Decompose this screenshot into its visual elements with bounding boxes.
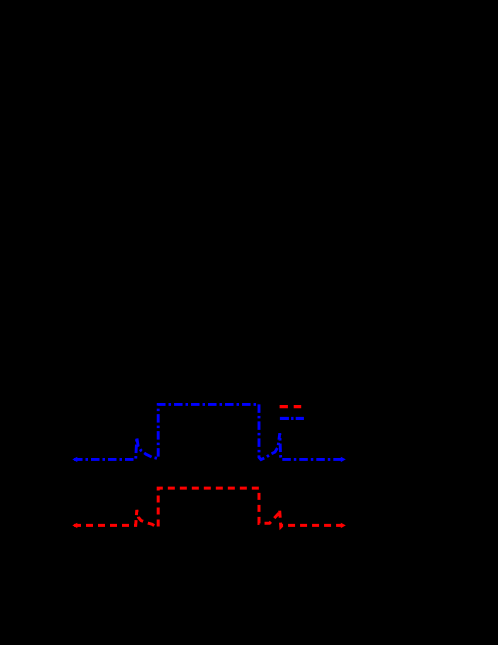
red trace left arrowhead [72, 523, 77, 528]
blue trace v_gs waveform (dash-dot) [74, 404, 344, 459]
legend blue dash-dot sample [280, 417, 304, 420]
legend red dashed sample [280, 405, 302, 408]
blue trace left arrowhead [72, 457, 77, 462]
red trace right arrowhead [341, 523, 346, 528]
blue trace right arrowhead [341, 457, 346, 462]
red trace v_pulse waveform (dashed) [74, 488, 344, 527]
